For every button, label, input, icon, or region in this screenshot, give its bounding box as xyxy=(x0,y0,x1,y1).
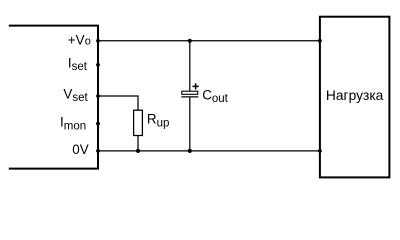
load box xyxy=(320,17,390,178)
wire Vset to resistor xyxy=(98,96,138,110)
capacitor Cout positive plate xyxy=(182,91,198,94)
svg-text:0V: 0V xyxy=(72,142,88,157)
wire 0V rail xyxy=(98,150,320,152)
pin Imon xyxy=(96,122,100,126)
wire resistor to 0V rail xyxy=(137,136,139,151)
pin +Vo xyxy=(96,39,100,43)
pin Vset xyxy=(96,94,100,98)
pin Iset xyxy=(96,63,100,67)
wire +Vo rail to capacitor Cout xyxy=(189,41,191,92)
power supply box (left, cropped) xyxy=(9,26,98,169)
junction capacitor/+Vo xyxy=(188,39,192,43)
wire +Vo rail xyxy=(98,40,320,42)
load pin 0V xyxy=(318,149,322,153)
junction capacitor/0V xyxy=(188,149,192,153)
resistor Rup xyxy=(134,110,143,135)
svg-text:+Vo: +Vo xyxy=(68,33,91,48)
svg-text:Нагрузка: Нагрузка xyxy=(326,88,384,103)
load pin +Vo xyxy=(318,39,322,43)
capacitor polarity plus sign xyxy=(193,83,199,89)
capacitor Cout negative plate xyxy=(181,96,198,98)
pin 0V xyxy=(96,149,100,153)
junction resistor/0V xyxy=(136,149,140,153)
wire capacitor to 0V rail xyxy=(189,97,191,151)
